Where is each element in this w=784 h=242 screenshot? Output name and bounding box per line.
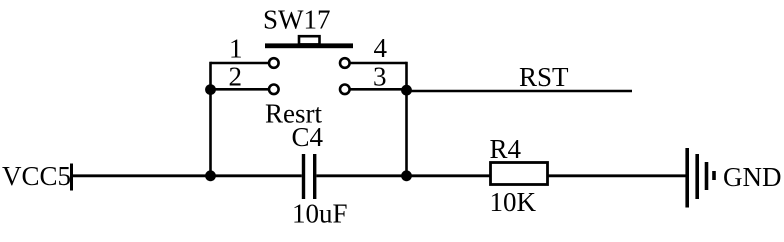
ground bar 3 (705, 162, 709, 190)
ground bar 2 (695, 154, 699, 199)
capacitor C4 left plate (302, 154, 305, 199)
junction pin2 (205, 84, 216, 95)
svg-text:1: 1 (229, 34, 243, 64)
wire left vertical (209, 62, 212, 176)
svg-text:3: 3 (373, 61, 387, 91)
switch SW17 pin 3 circle (340, 85, 350, 95)
svg-text:SW17: SW17 (263, 5, 331, 35)
resistor R4 body (491, 163, 548, 185)
svg-text:C4: C4 (292, 122, 324, 152)
svg-text:R4: R4 (490, 134, 522, 164)
wire pin2 to left vertical (211, 88, 270, 91)
svg-text:10uF: 10uF (292, 199, 348, 229)
switch SW17 pin 2 circle (269, 85, 279, 95)
wire capacitor to resistor (317, 174, 491, 177)
svg-text:4: 4 (374, 33, 388, 63)
svg-text:RST: RST (519, 62, 569, 92)
switch SW17 button (299, 36, 320, 44)
ground bar 1 (685, 148, 689, 208)
svg-text:GND: GND (723, 162, 782, 192)
ground bar 4 (712, 171, 716, 180)
wire RST (407, 90, 633, 93)
junction main wire left (205, 170, 216, 181)
switch SW17 pin 4 circle (340, 58, 350, 68)
wire pin4 to right vertical (350, 62, 407, 65)
wire resistor to ground (548, 174, 687, 177)
port VCC5 tick (70, 164, 73, 191)
switch SW17 pin 1 circle (269, 58, 279, 68)
junction main wire right (401, 170, 412, 181)
wire pin3 to right vertical (350, 88, 407, 91)
wire VCC5 to capacitor (72, 174, 302, 177)
wire right vertical (405, 62, 408, 176)
switch SW17 actuator bar (265, 43, 353, 48)
svg-text:10K: 10K (490, 187, 537, 217)
svg-text:2: 2 (229, 61, 243, 91)
capacitor C4 right plate (313, 154, 316, 199)
svg-text:VCC5: VCC5 (2, 161, 71, 191)
wire pin1 to left vertical (211, 62, 270, 65)
junction pin3 RST (401, 85, 412, 96)
